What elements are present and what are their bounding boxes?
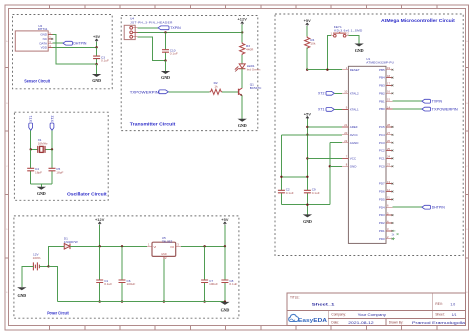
U1 pin 11 PD5 <box>379 196 394 202</box>
svg-text:PC0: PC0 <box>379 164 385 168</box>
junction at C3 ground <box>95 63 97 65</box>
wire battery positive to diode <box>39 246 64 266</box>
ground oscillator <box>37 187 46 196</box>
U1 pin 16 PB2 <box>379 90 393 96</box>
wire XT1 to crystal <box>31 130 38 149</box>
capacitor C2 <box>278 190 285 193</box>
U1 pin 23 PC0 <box>379 163 394 169</box>
wire TXPOWERPIN to R2 <box>168 91 209 93</box>
svg-text:PD0: PD0 <box>379 237 385 241</box>
wire VCC to U1 <box>307 157 342 159</box>
wire V_left vertical <box>280 135 282 205</box>
svg-text:PB5: PB5 <box>379 68 385 72</box>
junction GND pin V_right <box>329 165 331 167</box>
svg-text:PB4: PB4 <box>379 76 385 80</box>
wire U5 VO to +5V <box>181 245 225 247</box>
wire U2 DATA to DHTPIN <box>52 42 63 44</box>
svg-text:440R: 440R <box>246 48 254 52</box>
svg-text:GND: GND <box>17 293 26 298</box>
U1 pin 7 VCC <box>342 155 357 161</box>
ground power battery <box>17 287 26 298</box>
svg-text:AGND: AGND <box>350 141 360 145</box>
netlabel DHTPIN bubble mcu <box>422 205 431 209</box>
power flag +5V reset pullup <box>304 18 312 36</box>
svg-text:GND: GND <box>221 308 230 313</box>
svg-text:100%: 100% <box>33 256 41 260</box>
svg-text:1N4007W: 1N4007W <box>64 240 78 244</box>
wire PD4 to DHTPIN <box>393 206 422 208</box>
svg-text:10k: 10k <box>310 42 315 46</box>
svg-text:PC1: PC1 <box>379 157 385 161</box>
junction +12V <box>241 31 243 33</box>
svg-text:GND: GND <box>37 191 46 196</box>
U1 pin 5 PD3 <box>379 211 394 217</box>
svg-text:VDD: VDD <box>41 46 48 50</box>
U1 pin 17 PB3 <box>379 82 393 88</box>
wire U5 GND to bottom rail <box>163 259 165 302</box>
wire battery negative to ground <box>22 266 34 287</box>
wire U4 pin2 to +12V rail <box>138 31 243 33</box>
svg-text:PD2: PD2 <box>379 221 385 225</box>
U1 pin 10 XTAL2 <box>342 90 359 96</box>
U5 pin 3 <box>176 245 182 247</box>
svg-text:+12V: +12V <box>95 217 105 222</box>
junction crystal left <box>30 148 32 150</box>
svg-text:Date:: Date: <box>331 321 339 325</box>
svg-text:DHTPIN: DHTPIN <box>73 42 87 46</box>
zone tick marks top border <box>50 5 437 9</box>
microcontroller U1 body <box>348 66 386 243</box>
wire Q1 emitter to ground <box>241 96 243 119</box>
U4 pin 1 <box>133 27 138 29</box>
wire XT2 to XTAL2 <box>334 92 342 94</box>
transmitter circuit dashed box <box>121 16 258 131</box>
junction VCC V_mid <box>306 157 308 159</box>
U2 pin 3 <box>48 42 52 44</box>
svg-text:Sheet:: Sheet: <box>435 313 444 317</box>
U4 pin 3 <box>133 36 138 38</box>
svg-text:PD1: PD1 <box>379 229 385 233</box>
svg-text:+5V: +5V <box>304 18 312 23</box>
wire XT2 to crystal <box>45 130 52 149</box>
svg-text:BC547C: BC547C <box>250 86 262 90</box>
zone tick marks bottom border <box>50 326 437 330</box>
svg-text:21: 21 <box>344 123 347 127</box>
power flag +12V power circuit <box>95 217 105 247</box>
junction C10 top <box>164 31 166 33</box>
svg-text:0.1uF: 0.1uF <box>286 191 294 195</box>
svg-text:0.1uF: 0.1uF <box>104 282 112 286</box>
junction C7 top <box>203 245 205 247</box>
wire diode to U5 VI <box>70 245 147 247</box>
power flag +12V transmitter <box>237 17 247 33</box>
svg-text:Transmitter Circuit: Transmitter Circuit <box>130 121 176 126</box>
U1 pin 25 PC2 <box>379 147 394 153</box>
U1 pin 28 PC5 <box>379 123 394 129</box>
svg-text:PB0: PB0 <box>379 107 385 111</box>
junction battery positive <box>47 265 49 267</box>
wire cross rail C2 C9 <box>281 176 307 178</box>
svg-text:22: 22 <box>344 139 347 143</box>
wire U2 GND to ground rail <box>52 35 96 65</box>
DHT11 sensor U2 body <box>15 31 48 51</box>
svg-text:26: 26 <box>387 139 390 143</box>
junction cross rail left <box>280 176 282 178</box>
wire +5V vertical rail V_mid <box>306 127 308 205</box>
svg-text:10: 10 <box>344 90 347 94</box>
junction AVCC V_mid <box>306 134 308 136</box>
capacitor C4 <box>27 149 34 184</box>
svg-text:Pramod Eramudugolla: Pramod Eramudugolla <box>412 321 465 325</box>
svg-text:VCC: VCC <box>350 157 357 161</box>
svg-text:1k: 1k <box>214 85 218 89</box>
net stub PD1 <box>392 231 399 237</box>
oscillator circuit dashed box <box>14 112 108 200</box>
title block outline <box>287 293 465 326</box>
junction KEY1 reset <box>326 69 328 71</box>
svg-text:TITLE:: TITLE: <box>290 296 300 300</box>
U1 pin 14 PB0 <box>379 105 392 111</box>
U2 pin 1 <box>48 34 52 36</box>
capacitor C7 <box>201 246 208 301</box>
svg-text:PB2: PB2 <box>379 91 385 95</box>
wire U2 VDD to +5V <box>52 47 96 49</box>
wire R2 to Q1 base <box>222 91 238 93</box>
U1 pin 2 PD0 <box>379 235 394 241</box>
junction C7 bottom <box>203 300 205 302</box>
svg-text:DHT11: DHT11 <box>38 27 48 31</box>
U1 pin 3 PD1 <box>379 227 394 233</box>
wire AVCC to U1 <box>281 134 342 136</box>
svg-text:16MHz: 16MHz <box>38 141 48 145</box>
U1 pin 21 AREF <box>342 123 358 129</box>
svg-text:VI: VI <box>154 245 157 249</box>
U1 pin 15 PB1 <box>379 98 392 104</box>
svg-text:Company:: Company: <box>331 313 346 317</box>
svg-text:AtMega Microcontroller Circuit: AtMega Microcontroller Circuit <box>381 18 455 23</box>
netlabel TXPIN bubble mcu <box>422 99 431 103</box>
U1 pin 13 PD7 <box>379 180 394 186</box>
svg-text:EasyEDA: EasyEDA <box>298 318 327 324</box>
diode D1 <box>64 244 70 250</box>
svg-text:20: 20 <box>344 131 347 135</box>
svg-text:Sensor Circuit: Sensor Circuit <box>24 79 50 84</box>
sensor circuit dashed box <box>13 15 113 89</box>
junction C6 top <box>121 245 123 247</box>
svg-text:25: 25 <box>387 147 390 151</box>
U4 pin circle 2 <box>130 31 133 34</box>
battery BT1 <box>33 262 39 270</box>
svg-text:16: 16 <box>387 90 390 94</box>
svg-text:0.1uF: 0.1uF <box>101 58 109 62</box>
svg-text:0.1uF: 0.1uF <box>229 282 237 286</box>
svg-text:GND: GND <box>161 75 170 80</box>
wire GND pin to U1 <box>330 165 342 167</box>
svg-text:XTAL1: XTAL1 <box>350 108 359 112</box>
svg-text:2021-08-12: 2021-08-12 <box>348 321 373 325</box>
svg-text:TXPIN: TXPIN <box>432 100 443 104</box>
svg-text:+5V: +5V <box>304 111 312 116</box>
svg-text:PC5: PC5 <box>379 125 385 129</box>
svg-text:Power Circuit: Power Circuit <box>47 310 69 315</box>
U1 pin 9 XTAL1 <box>342 106 359 112</box>
capacitor C6 <box>119 246 126 301</box>
svg-text:GND: GND <box>350 164 358 168</box>
svg-text:13: 13 <box>387 180 390 184</box>
zone tick marks left border <box>5 68 9 259</box>
U1 pin 26 PC3 <box>379 139 394 145</box>
U1 pin 22 AGND <box>342 139 359 145</box>
capacitor C1 <box>96 246 103 301</box>
power flag +5V sensor <box>93 34 101 47</box>
resistor R4 <box>305 36 310 69</box>
voltage regulator U5 body <box>152 242 176 256</box>
netlabel XT1 bubble <box>29 123 33 130</box>
junction AREF <box>306 126 308 128</box>
power circuit dashed box <box>14 216 239 318</box>
svg-text:PC2: PC2 <box>379 149 385 153</box>
U4 pin 2 <box>133 31 138 33</box>
svg-text:XTAL2: XTAL2 <box>350 91 359 95</box>
junction crystal right <box>51 148 53 150</box>
svg-text:17: 17 <box>387 82 390 86</box>
capacitor C9 <box>304 190 311 193</box>
U1 pin 12 PD6 <box>379 188 394 194</box>
LED1 <box>234 64 245 72</box>
svg-text:0.1uF: 0.1uF <box>312 191 320 195</box>
zone tick marks right border <box>465 68 468 259</box>
svg-text:15: 15 <box>387 98 390 102</box>
wire mcu bottom ground rail <box>281 205 329 215</box>
wire U4 pin1 to TXPIN <box>138 27 158 29</box>
U2 pin 4 <box>48 47 52 49</box>
svg-text:78L05Z: 78L05Z <box>162 240 173 244</box>
svg-text:GND: GND <box>161 253 167 256</box>
U1 pin 19 PB5 <box>379 66 393 72</box>
ground mcu <box>303 214 312 224</box>
U4 pin circle 1 <box>130 26 133 29</box>
svg-text:XT2: XT2 <box>318 92 324 96</box>
U1 pin 20 AVCC <box>342 131 359 137</box>
svg-text:PD5: PD5 <box>379 198 385 202</box>
wire oscillator ground rail <box>31 184 52 187</box>
svg-text:RESET: RESET <box>350 68 360 72</box>
svg-text:TXPIN: TXPIN <box>170 26 181 30</box>
svg-text:KD-3.6x6.1_SMD: KD-3.6x6.1_SMD <box>334 29 363 33</box>
wire AREF to U1 <box>307 126 342 128</box>
wire reset net to U1 pin 1 <box>307 69 342 71</box>
junction mcu ground rail <box>306 204 308 206</box>
svg-text:Your Company: Your Company <box>358 313 387 317</box>
power flag +5V mcu supply <box>304 111 312 127</box>
svg-text:PC3: PC3 <box>379 141 385 145</box>
svg-text:27: 27 <box>387 131 390 135</box>
svg-text:+5V: +5V <box>93 34 101 39</box>
capacitor C8 <box>221 246 228 301</box>
crystal X1 <box>38 146 45 153</box>
U4 pin circle 3 <box>130 35 133 38</box>
netlabel TXPOWERPIN bubble <box>159 90 168 94</box>
wire XT1 to XTAL1 <box>334 108 342 110</box>
U5 pin 1 <box>147 245 152 247</box>
wire KEY1 right to ground <box>349 36 360 44</box>
svg-text:100uF: 100uF <box>209 282 218 286</box>
wire KEY1 left to reset net <box>327 36 331 70</box>
svg-text:18pF: 18pF <box>35 170 42 174</box>
U1 pin 4 PD2 <box>379 219 394 225</box>
svg-text:0.1uF: 0.1uF <box>170 52 178 56</box>
svg-text:led Green: led Green <box>247 68 261 72</box>
atmega microcontroller circuit dashed box <box>275 14 463 256</box>
U2 pin 2 <box>48 38 52 40</box>
junction C1 bottom <box>99 300 101 302</box>
pushbutton KEY1 <box>331 32 350 37</box>
svg-text:18: 18 <box>387 74 390 78</box>
net stub PD0 <box>392 238 395 240</box>
netlabel TXPOWERPIN bubble mcu <box>422 107 431 111</box>
U1 pin 18 PB4 <box>379 74 393 80</box>
junction R4 reset <box>306 69 308 71</box>
svg-text:AVCC: AVCC <box>350 133 359 137</box>
netlabel XT1 bubble mcu <box>326 108 334 112</box>
junction +5V rail C8 <box>224 245 226 247</box>
U1 pin 24 PC1 <box>379 155 394 161</box>
ground KEY1 <box>354 44 363 53</box>
svg-text:DHTPIN: DHTPIN <box>432 206 446 210</box>
svg-text:28: 28 <box>387 123 390 127</box>
resistor R2 <box>210 89 223 94</box>
svg-text:23: 23 <box>387 163 390 167</box>
EasyEDA logo cloud <box>289 314 299 321</box>
svg-text:XT1: XT1 <box>318 108 324 112</box>
svg-text:PB1: PB1 <box>379 99 385 103</box>
wire LED to Q1 collector <box>241 69 243 88</box>
wire PB1 to TXPIN <box>393 100 422 102</box>
svg-text:1/1: 1/1 <box>452 313 457 317</box>
svg-text:+5V: +5V <box>221 217 229 222</box>
ground transmitter Q1 <box>238 119 247 128</box>
ground transmitter connector <box>161 61 170 81</box>
svg-text:ATMEGA328P-PU: ATMEGA328P-PU <box>366 60 394 64</box>
svg-text:GND: GND <box>238 123 247 128</box>
JST connector U4 body <box>124 25 135 39</box>
U1 pin 1 RESET <box>342 66 360 72</box>
junction at +5V and VDD <box>95 46 97 48</box>
svg-text:100uF: 100uF <box>127 282 136 286</box>
svg-text:XT2: XT2 <box>50 116 54 122</box>
U5 pin 2 <box>163 256 165 259</box>
svg-text:Oscillator Circuit: Oscillator Circuit <box>67 192 107 197</box>
netlabel XT2 bubble mcu <box>326 91 334 95</box>
svg-text:PC4: PC4 <box>379 133 385 137</box>
svg-text:XT1: XT1 <box>29 116 33 122</box>
junction +12V rail C1 <box>99 245 101 247</box>
svg-text:PD3: PD3 <box>379 213 385 217</box>
U1 pin 6 PD4 <box>379 204 393 210</box>
svg-text:TXPOWERPIN: TXPOWERPIN <box>432 107 459 111</box>
capacitor C5 <box>49 149 56 184</box>
wire AGND to U1 <box>330 142 342 144</box>
U1 pin 8 GND <box>342 163 357 169</box>
svg-text:19: 19 <box>387 66 390 70</box>
ground sensor <box>92 64 101 83</box>
transistor Q1 <box>239 88 243 96</box>
junction C6 bottom <box>121 300 123 302</box>
wire power bottom rail <box>58 301 225 303</box>
wire PB0 to TXPOWERPIN <box>393 108 422 110</box>
svg-text:REV:: REV: <box>435 302 442 306</box>
U1 pin 27 PC4 <box>379 131 394 137</box>
svg-text:Sheet_1: Sheet_1 <box>312 302 335 306</box>
netlabel DHTPIN bubble <box>63 41 72 45</box>
svg-text:PB3: PB3 <box>379 84 385 88</box>
svg-text:12: 12 <box>387 188 390 192</box>
svg-text:AREF: AREF <box>350 125 358 129</box>
zone letters left/right borders <box>6 40 468 294</box>
netlabel XT2 bubble <box>50 123 54 130</box>
wire U4 pin3 to ground <box>138 37 166 61</box>
junction bottom rail at C8 <box>224 300 226 302</box>
capacitor C3 <box>93 47 100 64</box>
capacitor C10 <box>162 32 169 60</box>
svg-text:Drawn By:: Drawn By: <box>389 321 404 325</box>
power flag +5V power circuit <box>221 217 229 247</box>
svg-text:GND: GND <box>355 48 364 53</box>
ground power circuit right <box>220 302 229 313</box>
svg-text:24: 24 <box>387 155 390 159</box>
junction C10 ground <box>164 59 166 61</box>
svg-text:GND: GND <box>92 78 101 83</box>
svg-text:+12V: +12V <box>237 17 247 22</box>
wire battery junction to bottom rail <box>49 266 58 301</box>
svg-text:18pF: 18pF <box>56 170 63 174</box>
junction U5 ground <box>163 300 165 302</box>
svg-text:PD7: PD7 <box>379 182 385 186</box>
svg-text:PD4: PD4 <box>379 205 385 209</box>
svg-text:VO: VO <box>170 245 175 249</box>
resistor R3 <box>240 32 245 63</box>
svg-text:1.0: 1.0 <box>450 302 455 306</box>
wire V_right vertical <box>329 143 331 205</box>
junction cross rail right <box>306 176 308 178</box>
svg-text:PD6: PD6 <box>379 190 385 194</box>
svg-text:TXPOWERPIN: TXPOWERPIN <box>130 90 160 94</box>
netlabel TXPIN bubble <box>158 26 169 30</box>
svg-text:GND: GND <box>303 219 312 224</box>
svg-text:JST-PH_3-PIN_HEADER: JST-PH_3-PIN_HEADER <box>130 20 173 24</box>
svg-text:14: 14 <box>387 105 390 109</box>
